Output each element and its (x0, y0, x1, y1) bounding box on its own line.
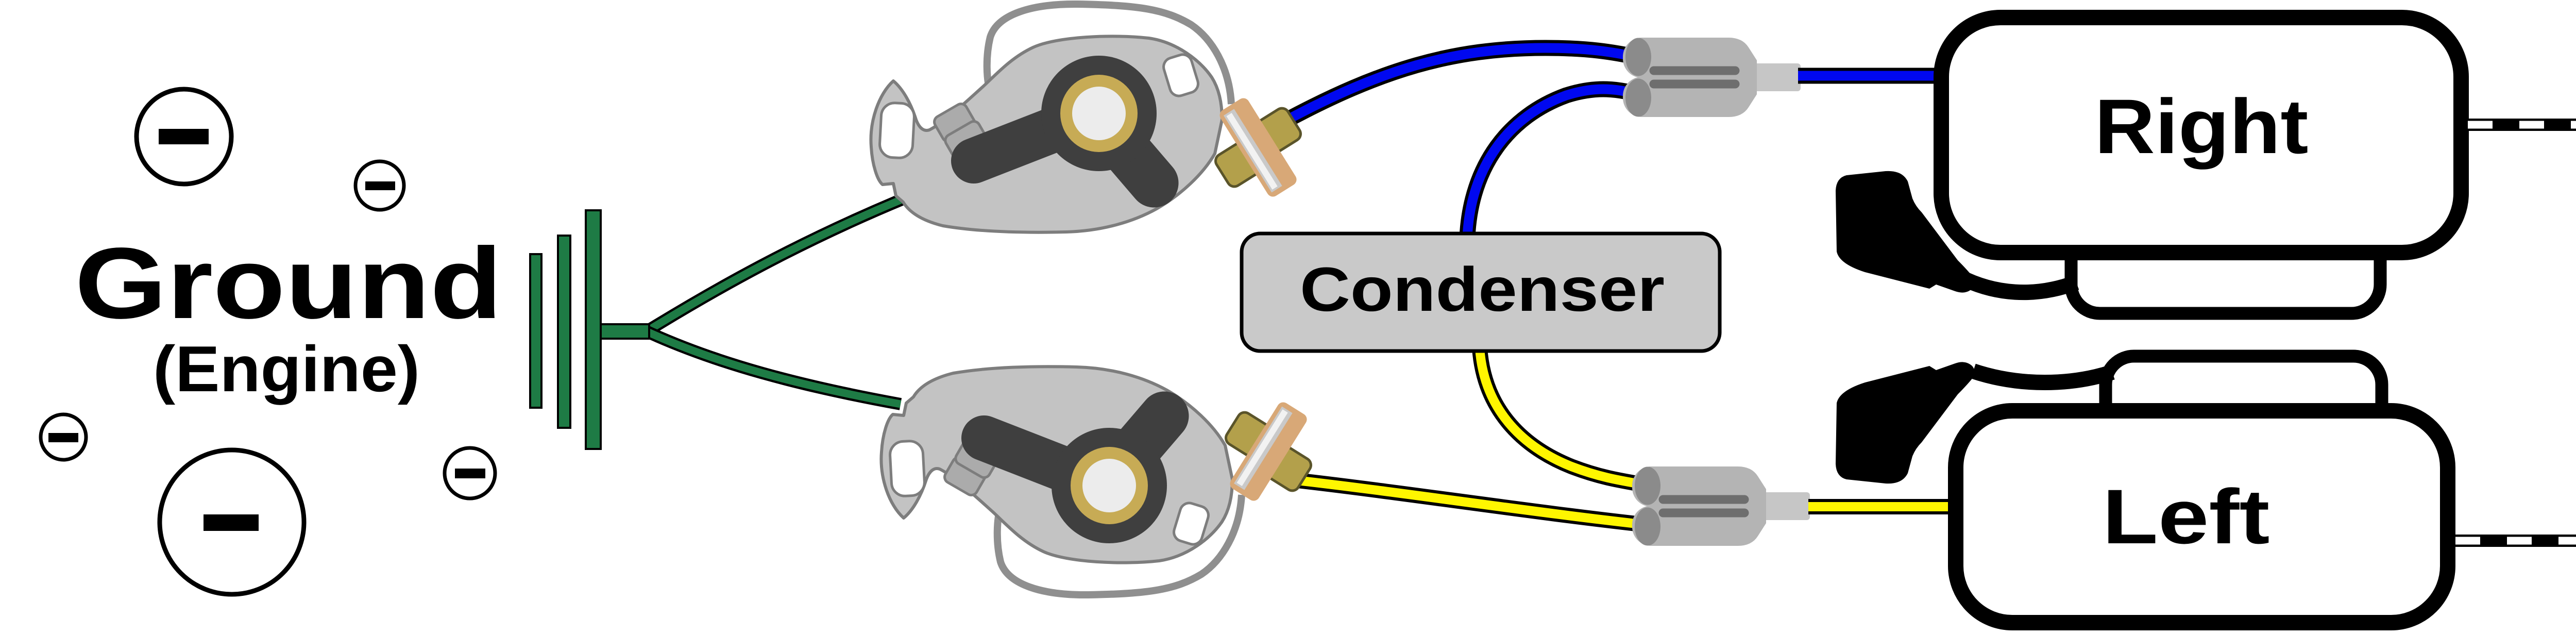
green ground wire stem (598, 324, 649, 339)
slot hole left wing (879, 102, 914, 158)
left coil bracket (2106, 356, 2382, 454)
grey tab 1 (932, 102, 977, 144)
yellow wire from condenser to connector (1480, 348, 1655, 487)
green ground wire lower branch (647, 331, 901, 404)
yellow wire from lower points to connector (1288, 479, 1655, 526)
svg-text:(Engine): (Engine) (153, 332, 420, 405)
connector blue pair (1623, 38, 1801, 117)
dashed wire from left coil (2455, 361, 2576, 541)
condenser box (1242, 233, 1720, 351)
left coil plug wire (1973, 371, 2112, 382)
points assembly lower (mirrored) (881, 366, 1332, 595)
terminal stack (1194, 81, 1323, 213)
svg-text:Condenser: Condenser (1300, 254, 1665, 324)
minus symbol 2 (355, 161, 404, 210)
hub brass ring (1060, 75, 1138, 152)
ground symbol bar 3 (586, 210, 601, 449)
hub white center (1072, 87, 1126, 140)
blue wire from condenser to connector (1467, 89, 1645, 237)
minus symbol 5 (160, 450, 304, 594)
blue wire from upper points to connector (1284, 48, 1645, 122)
minus symbol 1 (137, 89, 231, 184)
left coil plug boot (1836, 362, 1975, 483)
points assembly upper (871, 4, 1322, 232)
ground symbol bar 1 (530, 254, 541, 408)
yellow wire connector to left coil (1808, 499, 1953, 514)
green ground wire upper branch (647, 198, 904, 331)
minus symbol 3 (41, 414, 86, 460)
svg-text:Ground: Ground (75, 227, 502, 340)
blue wire connector to right coil (1798, 68, 1937, 84)
hole top right (1161, 52, 1200, 98)
ground symbol bar 2 (558, 236, 570, 428)
left coil body (1956, 411, 2448, 623)
points cam follower hub (1041, 56, 1157, 171)
right coil bracket (2071, 216, 2380, 313)
right coil body (1941, 18, 2461, 253)
dashed wire from right coil (2468, 125, 2576, 320)
base plate (871, 36, 1222, 232)
connector yellow pair (1632, 466, 1810, 546)
right coil plug boot (1836, 171, 1975, 293)
svg-text:Left: Left (2103, 473, 2270, 560)
points arm right limb (1108, 129, 1154, 183)
right coil plug wire (1958, 276, 2076, 292)
svg-text:Right: Right (2095, 83, 2309, 170)
grey tab 2 (943, 119, 990, 162)
minus symbol 4 (445, 448, 495, 498)
spring arc (987, 4, 1231, 104)
points arm left limb (974, 123, 1072, 161)
